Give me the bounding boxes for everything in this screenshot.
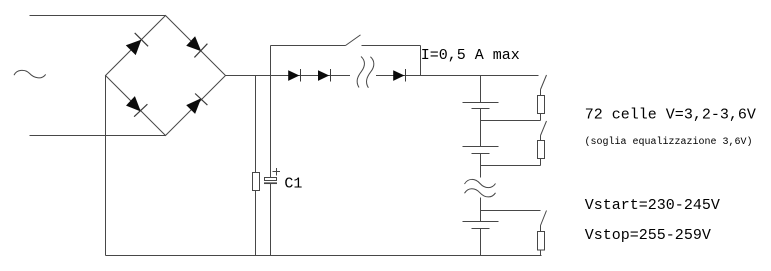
wire main DC bus left of break	[226, 75, 351, 77]
battery cell 1	[463, 103, 499, 109]
battery cell 3	[463, 222, 499, 229]
wire main DC bus right of break	[376, 75, 539, 77]
resistor R3	[538, 232, 545, 251]
wire SW3 to R3	[540, 226, 542, 232]
wire capacitor column	[270, 46, 272, 256]
svg-text:I=0,5 A max: I=0,5 A max	[421, 47, 520, 64]
diode D2	[318, 70, 329, 81]
resistor R2	[538, 141, 545, 159]
wire bleeder resistor column	[255, 76, 257, 256]
diode bar D1	[300, 69, 302, 82]
wire bridge negative down to rail	[105, 76, 107, 256]
svg-text:Vstart=230-245V: Vstart=230-245V	[585, 197, 720, 214]
node line cell1 bottom	[481, 114, 541, 121]
wire SW2 to R2	[540, 136, 542, 141]
switch S1 blade (bypass)	[346, 35, 361, 46]
AC source tilde	[14, 70, 46, 78]
wire AC top	[30, 15, 166, 17]
wire AC bottom	[30, 135, 166, 137]
node line cell3 top	[481, 210, 541, 212]
wire SW1 to R1	[540, 90, 542, 96]
diode bar D-BR	[195, 94, 207, 106]
diode bridge D-BR	[186, 98, 201, 114]
break squiggle main bus left	[357, 57, 364, 88]
capacitor C1 bottom plate	[264, 182, 277, 184]
switch SW1 blade	[541, 75, 547, 90]
bridge rectifier diamond	[106, 16, 226, 136]
wire cell3 to rail	[480, 229, 482, 256]
break squiggle battery upper	[465, 179, 496, 187]
wire bottom rail	[106, 255, 542, 257]
wire bypass branch top	[271, 46, 421, 76]
diode bar D2	[330, 69, 332, 82]
break squiggle battery lower	[465, 189, 496, 197]
switch SW2 blade	[541, 121, 547, 136]
svg-text:Vstop=255-259V: Vstop=255-259V	[585, 227, 711, 244]
capacitor C1 top plate	[264, 178, 277, 181]
switch SW3 blade	[541, 211, 547, 226]
resistor bleeder	[253, 173, 260, 191]
wire cell2 to battery break	[480, 154, 482, 178]
diode D1	[288, 70, 299, 81]
wire break to cell3	[480, 198, 482, 222]
diode bar D-BL	[134, 104, 147, 117]
battery cell 2	[463, 147, 499, 154]
resistor R1	[538, 96, 545, 114]
node line cell2 bottom	[481, 159, 541, 166]
svg-text:(soglia equalizzazione 3,6V): (soglia equalizzazione 3,6V)	[585, 136, 753, 148]
diode D3	[393, 70, 404, 81]
diode bar D3	[405, 69, 407, 82]
wire R3 to rail	[540, 250, 542, 256]
diode bar D-TR	[194, 44, 207, 58]
wire cell1 to cell2	[480, 109, 482, 147]
wire battery top lead	[480, 76, 482, 103]
diode bridge D-TR	[186, 36, 201, 51]
break squiggle main bus right	[367, 57, 374, 88]
capacitor C1 polarity plus	[273, 168, 281, 176]
svg-text:72 celle V=3,2-3,6V: 72 celle V=3,2-3,6V	[585, 106, 756, 123]
svg-text:C1: C1	[284, 175, 302, 192]
diode bridge D-BL	[126, 96, 141, 111]
diode bar D-TL	[135, 33, 148, 46]
diode bridge D-TL	[126, 40, 142, 56]
